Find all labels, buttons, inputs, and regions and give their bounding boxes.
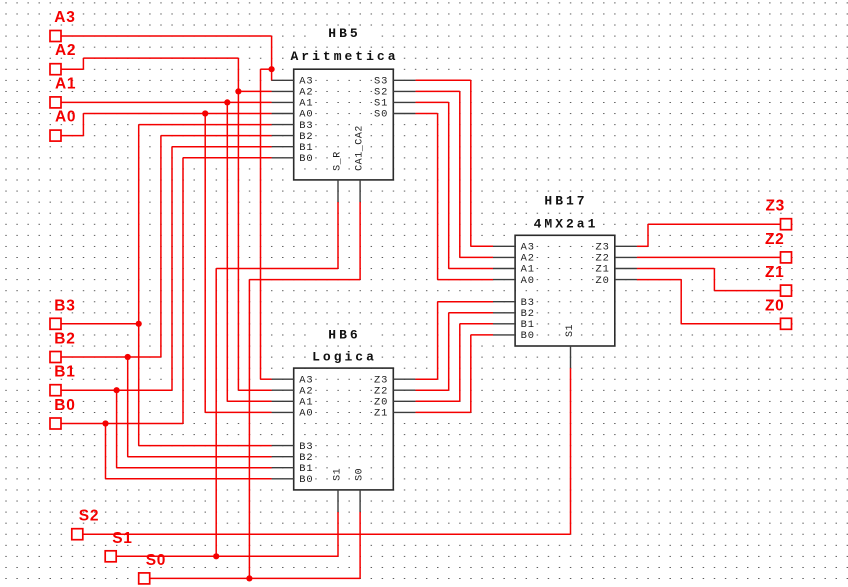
wire net Z2-out bbox=[637, 256, 781, 258]
wire net B0 bbox=[61, 158, 272, 479]
input/output port S0 bbox=[139, 552, 166, 584]
pin A0 (left stub) of HB17 bbox=[493, 274, 536, 287]
wire net Z0-out bbox=[637, 280, 781, 324]
input/output port Z2 bbox=[765, 231, 792, 263]
wire net A1 bbox=[61, 102, 272, 401]
wire net LZ1-to-B0 bbox=[416, 335, 494, 413]
svg-text:S1: S1 bbox=[565, 324, 576, 337]
wire net LZ3-to-B3 bbox=[416, 302, 494, 380]
wire net S1-ctl bbox=[116, 202, 338, 556]
svg-text:A0: A0 bbox=[299, 408, 313, 420]
wire net A3 bbox=[61, 36, 272, 379]
svg-text:A2: A2 bbox=[55, 42, 76, 59]
pin A1 (left stub) of HB5 bbox=[272, 97, 315, 110]
wire net S3-to-A3 bbox=[416, 80, 494, 246]
svg-text:S0: S0 bbox=[146, 552, 166, 569]
pin S_R (bottom stub) of HB5 bbox=[332, 149, 344, 202]
pin Z2 (right stub) of HB17 bbox=[594, 252, 637, 265]
wire net A0 bbox=[61, 114, 272, 413]
input/output port B2 bbox=[50, 331, 76, 363]
pin CA1_CA2 (bottom stub) of HB5 bbox=[354, 123, 366, 202]
pin B2 (left stub) of HB5 bbox=[272, 130, 315, 143]
svg-text:HB17: HB17 bbox=[544, 194, 587, 209]
pin A2 (left stub) of HB6 bbox=[272, 385, 315, 398]
svg-text:Z2: Z2 bbox=[765, 231, 785, 248]
wire net LZ0-to-B1 bbox=[416, 324, 494, 402]
svg-text:Z0: Z0 bbox=[765, 297, 785, 314]
input/output port A0 bbox=[50, 109, 76, 142]
pin S0 (bottom stub) of HB6 bbox=[354, 466, 366, 512]
svg-text:A3: A3 bbox=[54, 9, 75, 26]
wire net S0-ctl bbox=[150, 202, 361, 578]
svg-text:4MX2a1: 4MX2a1 bbox=[534, 217, 599, 232]
input/output port S2 bbox=[72, 508, 99, 540]
input/output port S1 bbox=[105, 530, 132, 562]
wire net Z3-out bbox=[637, 224, 781, 246]
block HB5 Aritmetica (arithmetic unit) bbox=[290, 26, 398, 180]
pin B0 (left stub) of HB17 bbox=[493, 329, 536, 342]
wire net S2-to-A2 bbox=[416, 91, 494, 257]
pin B3 (left stub) of HB17 bbox=[493, 296, 536, 309]
block HB6 Logica (logic unit) bbox=[294, 328, 394, 490]
pin S1 (bottom stub) of HB17 bbox=[564, 322, 576, 368]
wire net Z1-out bbox=[637, 269, 781, 291]
pin Z3 (right stub) of HB17 bbox=[594, 241, 637, 254]
pin A3 (left stub) of HB6 bbox=[272, 374, 315, 387]
pin B1 (left stub) of HB17 bbox=[493, 318, 536, 331]
pin A0 (left stub) of HB6 bbox=[272, 407, 315, 420]
pin A1 (left stub) of HB6 bbox=[272, 396, 315, 409]
pin Z3 (right stub) of HB6 bbox=[373, 374, 416, 387]
wire net S1-to-A1 bbox=[416, 102, 494, 268]
pin Z0 (right stub) of HB6 bbox=[373, 396, 416, 409]
svg-text:HB6: HB6 bbox=[328, 328, 360, 343]
junction S0-ctl bbox=[246, 575, 252, 581]
pin B0 (left stub) of HB5 bbox=[272, 152, 315, 165]
pin Z0 (right stub) of HB17 bbox=[594, 274, 637, 287]
pin A0 (left stub) of HB5 bbox=[272, 108, 315, 121]
pin Z1 (right stub) of HB17 bbox=[594, 263, 637, 276]
pin B3 (left stub) of HB6 bbox=[272, 440, 315, 453]
svg-text:S1: S1 bbox=[112, 530, 132, 547]
svg-text:B0: B0 bbox=[299, 153, 313, 165]
svg-text:B2: B2 bbox=[54, 331, 75, 348]
input/output port A3 bbox=[50, 9, 76, 42]
svg-text:A0: A0 bbox=[521, 275, 535, 287]
input/output port Z3 bbox=[766, 198, 792, 230]
block HB17 4MX2a1 (4-bit 2:1 mux) bbox=[515, 194, 615, 347]
svg-text:Z3: Z3 bbox=[766, 198, 786, 215]
wire net B3 bbox=[61, 125, 272, 446]
input/output port B3 bbox=[50, 297, 76, 329]
input/output port Z0 bbox=[765, 297, 792, 329]
pin A3 (left stub) of HB17 bbox=[493, 241, 536, 254]
pin S2 (right stub) of HB5 bbox=[373, 86, 416, 99]
svg-text:Z1: Z1 bbox=[765, 264, 785, 281]
pin S1 (bottom stub) of HB6 bbox=[332, 466, 344, 512]
svg-text:B3: B3 bbox=[54, 297, 75, 314]
pin B3 (left stub) of HB5 bbox=[272, 119, 315, 132]
pin A1 (left stub) of HB17 bbox=[493, 263, 536, 276]
svg-text:B0: B0 bbox=[54, 397, 75, 414]
junction S1-ctl bbox=[213, 553, 219, 559]
junction A2 bbox=[235, 88, 241, 94]
pin A2 (left stub) of HB17 bbox=[493, 252, 536, 265]
wire net LZ2-to-B2 bbox=[416, 313, 494, 390]
junction A0 bbox=[202, 110, 208, 116]
pin B1 (left stub) of HB5 bbox=[272, 141, 315, 154]
svg-text:S0: S0 bbox=[374, 109, 388, 121]
junction A1 bbox=[224, 99, 230, 105]
pin Z2 (right stub) of HB6 bbox=[373, 385, 416, 398]
svg-text:Logica: Logica bbox=[312, 350, 377, 365]
svg-text:S1: S1 bbox=[333, 468, 344, 481]
pin B2 (left stub) of HB6 bbox=[272, 451, 315, 464]
pin A3 (left stub) of HB5 bbox=[272, 75, 315, 88]
pin B1 (left stub) of HB6 bbox=[272, 462, 315, 475]
pin S1 (right stub) of HB5 bbox=[373, 97, 416, 110]
junction B2 bbox=[125, 354, 131, 360]
svg-text:S_R: S_R bbox=[333, 151, 344, 171]
pin S3 (right stub) of HB5 bbox=[373, 75, 416, 88]
junction B3 bbox=[136, 321, 142, 327]
svg-text:Aritmetica: Aritmetica bbox=[290, 49, 398, 64]
wire net A2 bbox=[61, 58, 272, 390]
svg-text:Z1: Z1 bbox=[374, 408, 388, 420]
input/output port A1 bbox=[50, 75, 76, 108]
pin B0 (left stub) of HB6 bbox=[272, 473, 315, 486]
wire net S0-to-A0 bbox=[416, 114, 494, 280]
wire net B1 bbox=[61, 147, 272, 468]
svg-text:B1: B1 bbox=[54, 364, 75, 381]
svg-text:A0: A0 bbox=[55, 109, 76, 126]
junction B1 bbox=[114, 387, 120, 393]
wire net S2-ctl bbox=[83, 368, 571, 534]
svg-text:S0: S0 bbox=[355, 468, 366, 481]
input/output port B1 bbox=[50, 364, 76, 396]
pin S0 (right stub) of HB5 bbox=[373, 108, 416, 121]
svg-text:S2: S2 bbox=[79, 508, 99, 525]
svg-text:A1: A1 bbox=[55, 75, 76, 92]
input/output port Z1 bbox=[765, 264, 792, 296]
svg-text:CA1_CA2: CA1_CA2 bbox=[355, 125, 366, 171]
svg-text:B0: B0 bbox=[521, 330, 535, 342]
wire net B2 bbox=[61, 136, 272, 457]
junction A3 bbox=[269, 66, 275, 72]
svg-text:Z0: Z0 bbox=[596, 275, 610, 287]
pin B2 (left stub) of HB17 bbox=[493, 307, 536, 320]
input/output port B0 bbox=[50, 397, 76, 429]
junction B0 bbox=[102, 420, 108, 426]
pin Z1 (right stub) of HB6 bbox=[373, 407, 416, 420]
svg-text:B0: B0 bbox=[299, 474, 313, 486]
input/output port A2 bbox=[50, 42, 76, 74]
svg-text:HB5: HB5 bbox=[328, 26, 360, 41]
pin A2 (left stub) of HB5 bbox=[272, 86, 315, 99]
